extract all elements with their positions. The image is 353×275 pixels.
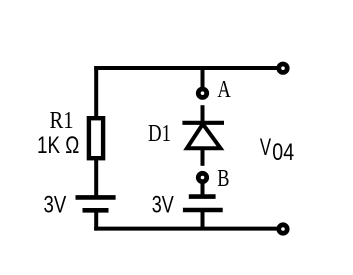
terminal bottom right: [276, 222, 289, 235]
diode D1: [182, 123, 224, 148]
wire node B to battery B2: [201, 184, 205, 197]
battery B1 short plate: [83, 208, 109, 213]
wire diode to node B: [201, 148, 205, 166]
svg-text:3V: 3V: [44, 192, 67, 219]
terminal top right: [276, 62, 289, 75]
svg-text:04: 04: [272, 139, 294, 166]
resistor R1: [89, 118, 103, 158]
svg-text:B: B: [217, 166, 229, 192]
label V04: [260, 134, 294, 166]
wire battery B2 to bottom rail: [201, 210, 205, 229]
wire bottom rail: [94, 227, 283, 231]
battery B2 short plate: [189, 194, 216, 199]
wire left branch upper: [94, 66, 98, 118]
wire node A to diode: [201, 105, 205, 124]
battery B2 long plate: [183, 208, 223, 212]
wire middle branch top: [201, 66, 205, 88]
svg-text:D1: D1: [148, 120, 171, 147]
svg-text:A: A: [217, 77, 231, 103]
svg-text:1K Ω: 1K Ω: [37, 132, 79, 159]
svg-text:3V: 3V: [152, 192, 174, 219]
wire battery B1 to bottom rail: [94, 210, 98, 230]
wire top rail: [94, 66, 283, 70]
svg-text:R1: R1: [50, 107, 74, 134]
battery B1 long plate: [76, 195, 116, 200]
node A: [196, 87, 209, 100]
node B: [196, 171, 209, 184]
wire resistor to battery: [94, 160, 98, 197]
svg-text:V: V: [260, 134, 271, 161]
